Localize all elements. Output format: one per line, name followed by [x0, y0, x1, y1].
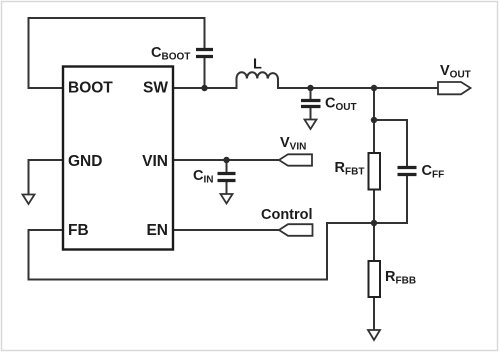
svg-text:Control: Control	[261, 207, 313, 223]
inductor L	[237, 72, 279, 88]
wire COUT bottom lead	[310, 109, 312, 120]
flag VOUT output	[438, 82, 471, 94]
op-amp U1 (regulator IC body)	[63, 67, 173, 250]
svg-text:SW: SW	[143, 80, 168, 97]
svg-text:VIN: VIN	[142, 153, 168, 170]
wire RFBB top lead	[373, 223, 375, 261]
svg-text:L: L	[253, 57, 262, 73]
svg-text:GND: GND	[68, 153, 102, 170]
wire VIN pin to VVIN flag	[173, 159, 279, 161]
svg-text:FB: FB	[68, 222, 89, 239]
flag Control input	[279, 224, 313, 236]
flag VVIN input	[279, 154, 312, 165]
capacitor CIN	[218, 174, 236, 181]
wire RFBT bottom lead	[373, 190, 375, 224]
node VOUT divider junction	[371, 85, 377, 91]
wire CIN bottom lead	[226, 182, 228, 194]
wire VOUT node down to RFBT	[373, 88, 375, 153]
node CFF top junction	[371, 117, 377, 123]
wire BOOT pin	[29, 87, 64, 89]
wire inductor to VOUT flag	[278, 87, 438, 89]
svg-text:BOOT: BOOT	[68, 80, 113, 97]
wire top horizontal BOOT loop	[29, 18, 205, 88]
capacitor CBOOT	[196, 50, 213, 57]
node COUT junction	[307, 85, 313, 91]
node FB junction	[371, 220, 377, 226]
wire CIN top lead	[226, 160, 228, 172]
wire CFF bottom lead	[374, 176, 407, 223]
wire FB pin feedback loop	[29, 223, 375, 280]
ground under COUT	[305, 120, 317, 130]
ground under GND pin	[23, 195, 35, 205]
wire GND pin	[29, 160, 64, 194]
wire EN pin to Control flag	[173, 229, 279, 231]
wire RFBB bottom lead	[373, 297, 375, 329]
wire SW pin to inductor	[173, 87, 237, 89]
wire CFF top branch	[374, 120, 407, 166]
wire CBOOT bottom lead	[204, 58, 206, 88]
capacitor COUT	[301, 101, 321, 107]
resistor RFBB	[369, 261, 381, 297]
capacitor CFF	[398, 168, 417, 175]
ground under CIN	[221, 194, 233, 204]
wire COUT top lead	[310, 88, 312, 99]
svg-text:EN: EN	[146, 222, 168, 239]
node SW-CBOOT junction	[201, 85, 207, 91]
ground under RFBB	[368, 330, 380, 340]
node CIN junction	[223, 157, 229, 163]
resistor RFBT	[369, 153, 381, 190]
